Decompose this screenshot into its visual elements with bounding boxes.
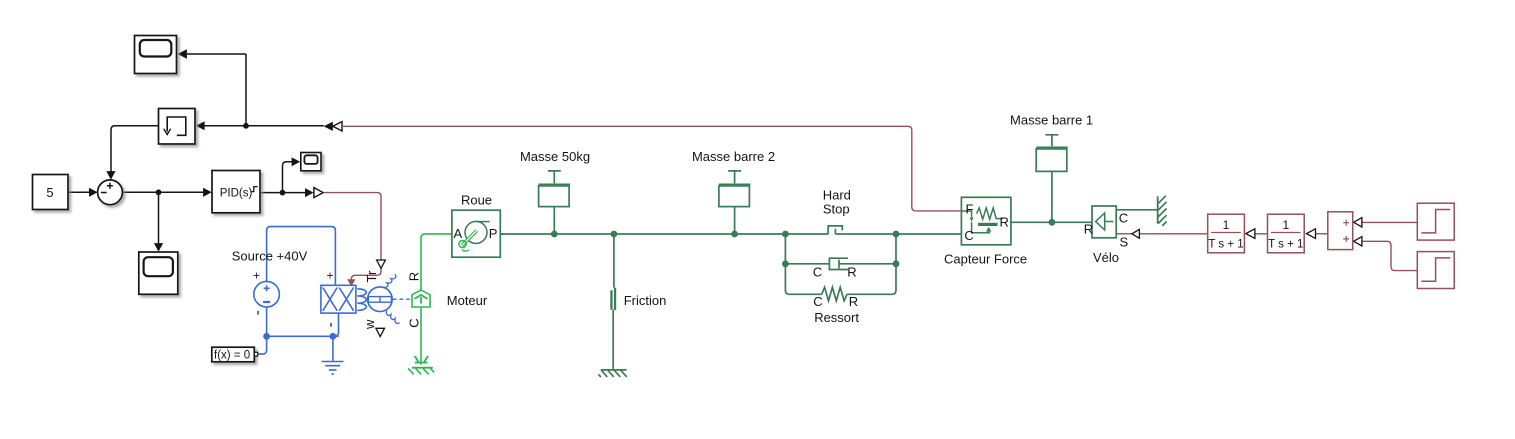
svg-text:Roue: Roue <box>461 193 492 208</box>
svg-text:Stop: Stop <box>823 202 850 217</box>
svg-text:Hard: Hard <box>823 188 851 203</box>
svg-text:1: 1 <box>1223 218 1230 232</box>
svg-text:Moteur: Moteur <box>447 293 488 308</box>
svg-text:Masse barre 1: Masse barre 1 <box>1010 113 1093 128</box>
svg-text:Capteur Force: Capteur Force <box>944 252 1027 267</box>
svg-text:C: C <box>813 294 822 309</box>
svg-text:C: C <box>964 228 973 243</box>
svg-text:A: A <box>454 226 463 241</box>
svg-text:Vélo: Vélo <box>1093 250 1119 265</box>
svg-text:C: C <box>1119 211 1128 226</box>
svg-text:R: R <box>849 294 858 309</box>
svg-text:Masse barre 2: Masse barre 2 <box>692 149 775 164</box>
svg-text:Masse 50kg: Masse 50kg <box>520 149 590 164</box>
svg-text:F: F <box>966 202 974 217</box>
svg-text:C: C <box>813 265 822 280</box>
svg-text:Source +40V: Source +40V <box>232 249 308 264</box>
svg-text:+: + <box>253 269 260 283</box>
svg-text:P: P <box>489 226 498 241</box>
svg-text:R: R <box>847 265 856 280</box>
svg-text:Friction: Friction <box>624 293 667 308</box>
svg-text:R: R <box>1000 215 1009 230</box>
svg-text:T s + 1: T s + 1 <box>1208 239 1243 251</box>
svg-text:Tr: Tr <box>364 270 379 282</box>
svg-text:w: w <box>362 319 377 330</box>
svg-text:T s + 1: T s + 1 <box>1268 239 1303 251</box>
svg-text:S: S <box>1120 235 1129 250</box>
svg-text:f(x) = 0: f(x) = 0 <box>214 350 250 362</box>
svg-text:R: R <box>406 272 421 281</box>
svg-text:1: 1 <box>1282 218 1289 232</box>
svg-text:Ressort: Ressort <box>814 310 859 325</box>
svg-text:+: + <box>327 269 334 283</box>
svg-text:C: C <box>406 318 421 327</box>
svg-text:5: 5 <box>46 185 53 200</box>
svg-text:PID(s): PID(s) <box>220 188 253 200</box>
svg-text:R: R <box>1084 222 1093 237</box>
